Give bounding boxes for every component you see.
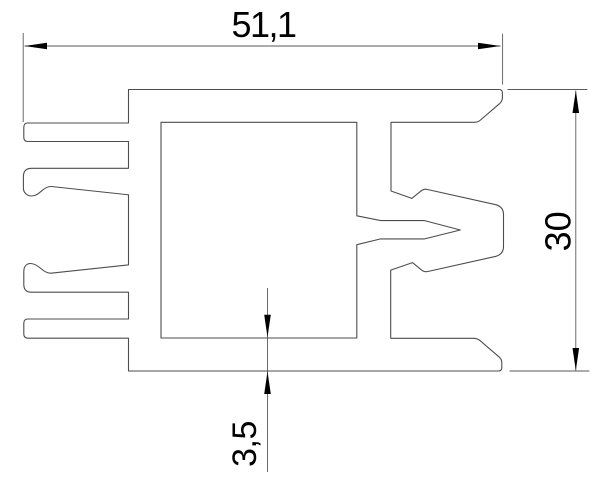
arrow left xyxy=(25,43,48,50)
dim 30 extension top xyxy=(508,89,588,91)
arrow right xyxy=(478,43,501,50)
dim 51,1 extension right xyxy=(502,34,504,85)
arrow down xyxy=(573,348,580,371)
dim 30 line xyxy=(575,91,577,371)
svg-text:51,1: 51,1 xyxy=(232,4,297,45)
svg-text:3,5: 3,5 xyxy=(226,421,264,467)
arrow up xyxy=(573,91,580,114)
svg-text:30: 30 xyxy=(537,211,578,251)
dim 51,1 line xyxy=(25,45,501,47)
dim 51,1 extension left xyxy=(22,33,24,122)
inner cavity with snap beak xyxy=(161,122,460,338)
arrow up to body bottom xyxy=(264,372,271,395)
arrow down to cavity bottom xyxy=(264,315,271,338)
profile outer outline xyxy=(23,90,503,372)
dim 30 extension bottom xyxy=(510,370,590,372)
dim 3,5 line xyxy=(267,288,269,472)
